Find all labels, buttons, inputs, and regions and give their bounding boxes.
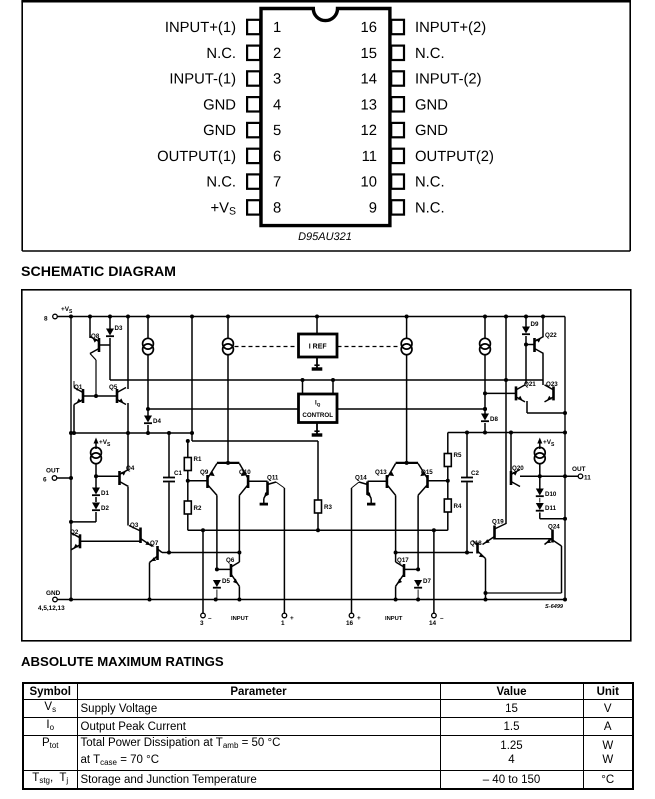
junction: [226, 461, 230, 465]
svg-text:S-6499: S-6499: [545, 604, 564, 610]
pin 15 lead: [391, 46, 404, 60]
wire I2 to Q9/Q10 collector bar: [227, 355, 229, 463]
wire: [433, 530, 435, 613]
junction: [186, 479, 190, 483]
junction: [483, 407, 487, 411]
resistor R4: [444, 499, 462, 512]
wire Q10 base to Q11: [248, 480, 267, 482]
wire current source I4 feed: [484, 317, 486, 339]
junction: [69, 315, 73, 319]
diode D9: [522, 321, 539, 334]
junction: [69, 598, 73, 602]
capacitor C1: [163, 433, 182, 553]
svg-text:R1: R1: [194, 456, 202, 463]
svg-text:16: 16: [346, 620, 354, 627]
svg-text:R2: R2: [194, 505, 202, 512]
wire Iq control left feed: [302, 380, 304, 394]
transistor Q4: [120, 465, 135, 487]
wire bias line y409 left: [148, 408, 299, 410]
wire D11 down: [539, 513, 541, 519]
pin connection diagram frame: [21, 1, 631, 251]
wire D9 to Q21 collector: [525, 336, 527, 385]
wire Q13 emitter down to Q17 collector: [395, 495, 397, 562]
block I REF: [299, 334, 338, 357]
transistor Q3: [129, 522, 153, 547]
svg-text:Q24: Q24: [548, 524, 560, 531]
wire bus to Q20 base: [510, 433, 512, 472]
heading SCHEMATIC DIAGRAM: [21, 265, 176, 279]
wire: [95, 360, 97, 396]
current source I1: [143, 338, 154, 354]
wire Q2 base line: [80, 540, 141, 542]
junction: [405, 315, 409, 319]
junction: [94, 394, 98, 398]
junction: [201, 528, 205, 532]
wire Q21 emitter drop: [526, 401, 528, 413]
svg-text:Q18: Q18: [470, 540, 482, 547]
svg-text:+: +: [290, 615, 294, 622]
svg-text:OUT: OUT: [46, 468, 60, 475]
junction: [226, 315, 230, 319]
junction: [563, 431, 567, 435]
wire I6 to D10: [539, 464, 541, 489]
pin 16 lead: [391, 20, 404, 34]
capacitor C2: [461, 433, 479, 553]
wire bias line y409 right: [337, 408, 485, 410]
transistor Q21: [516, 381, 536, 402]
junction: [214, 598, 218, 602]
transistor Q18: [470, 540, 486, 559]
diode D4: [144, 416, 161, 426]
junction: [126, 315, 130, 319]
junction: [483, 407, 487, 411]
transistor Q5: [109, 384, 126, 405]
wire: [202, 530, 204, 613]
ground below Iq CONTROL: [312, 423, 323, 435]
wire Q24 return to gnd node: [486, 592, 562, 594]
svg-text:–: –: [208, 615, 212, 622]
pin 14 lead: [391, 71, 404, 85]
wire bus y433 left: [71, 432, 192, 434]
junction: [509, 431, 513, 435]
junction: [215, 567, 219, 571]
junction: [465, 551, 469, 555]
wire: [351, 488, 353, 613]
terminal pin 16 INPUT+ (2): [346, 488, 361, 627]
junction: [167, 431, 171, 435]
svg-text:Q3: Q3: [130, 522, 139, 529]
junction: [108, 315, 112, 319]
wire: [417, 590, 419, 600]
svg-text:OUT: OUT: [572, 466, 586, 473]
wire Q19 to Q24 base: [495, 538, 553, 540]
junction: [186, 439, 190, 443]
junction: [126, 431, 130, 435]
junction: [504, 378, 508, 382]
wire x506 rail to Q19 collector: [505, 317, 507, 525]
transistor Q15: [418, 464, 433, 496]
svg-text:11: 11: [584, 475, 591, 482]
junction: [504, 315, 508, 319]
junction: [416, 567, 420, 571]
wire: [57, 477, 71, 479]
wire GND bottom rail: [57, 599, 565, 601]
terminal GND pins 4,5,12,13: [38, 590, 65, 612]
wire Q15 emitter down to Q17 base: [417, 495, 419, 569]
wire x128 Q5 to Q4 emitter: [127, 403, 129, 470]
pin 3 lead: [247, 71, 260, 85]
pin 8 lead: [247, 200, 260, 214]
svg-text:Q21: Q21: [524, 381, 536, 388]
wire R2 bottom to bus: [187, 512, 189, 530]
transistor Q17: [396, 557, 410, 586]
wire Q8 emitter drop x90: [89, 317, 91, 339]
wire: [216, 574, 218, 580]
wire current source I3 feed: [406, 317, 408, 339]
junction: [563, 411, 567, 415]
svg-text:Q22: Q22: [545, 332, 557, 339]
wire D8 to bus y432: [484, 423, 486, 433]
wire: [539, 440, 541, 449]
transistor Q8: [90, 333, 100, 354]
junction: [394, 551, 398, 555]
transistor Q6: [226, 557, 239, 586]
transistor Q11: [264, 475, 279, 499]
wire to Q4 base: [96, 475, 120, 477]
junction: [465, 431, 469, 435]
wire divider to Q9 base: [188, 480, 208, 482]
wire D2 to output node: [71, 521, 96, 523]
wire Q24 collector down: [561, 546, 563, 593]
resistor R1: [184, 456, 202, 471]
wire feedback bus y530: [188, 529, 448, 531]
wire center drop to R3: [317, 441, 319, 500]
wire D1 to D2: [95, 497, 97, 502]
junction: [563, 517, 567, 521]
wire: [235, 346, 299, 348]
svg-text:Q6: Q6: [226, 557, 235, 564]
diode D8: [481, 414, 498, 424]
ground below I REF: [312, 357, 323, 369]
svg-text:Q10: Q10: [239, 469, 251, 476]
svg-text:8: 8: [44, 316, 48, 323]
svg-text:D3: D3: [115, 325, 123, 332]
transistor Q10: [239, 464, 251, 496]
junction: [69, 520, 73, 524]
transistor Q23: [545, 381, 559, 402]
absolute maximum ratings table: [22, 682, 634, 790]
junction: [394, 598, 398, 602]
junction: [483, 315, 487, 319]
junction: [72, 431, 76, 435]
wire I3 to Q13/Q15 collector bar: [406, 355, 408, 463]
wire D11 to output node: [540, 518, 565, 520]
heading ABSOLUTE MAXIMUM RATINGS: [21, 655, 224, 669]
wire: [95, 440, 97, 449]
wire Q1-Q5 base link: [83, 395, 117, 397]
wire: [338, 346, 401, 348]
transistor Q13: [375, 464, 396, 496]
junction: [301, 378, 305, 382]
wire Q7 emitter to gnd: [149, 563, 151, 600]
diode D10: [536, 489, 557, 499]
svg-text:Q2: Q2: [70, 529, 79, 536]
wire y441 to R1: [187, 441, 189, 458]
junction: [483, 431, 487, 435]
svg-text:C1: C1: [174, 470, 182, 477]
svg-text:Q23: Q23: [546, 381, 558, 388]
svg-text:I REF: I REF: [309, 344, 328, 351]
wire Q6 base link: [217, 568, 231, 570]
junction: [405, 461, 409, 465]
wire bus y441: [192, 440, 318, 442]
terminal pin 1 INPUT+ (1): [281, 488, 294, 627]
wire R1 to R2: [187, 471, 189, 502]
wire Q21 base line: [485, 392, 516, 394]
junction: [94, 474, 98, 478]
wire Q1 emitter drop: [73, 405, 75, 434]
wire divider to Q15 base: [428, 480, 448, 482]
junction: [538, 474, 542, 478]
svg-text:D8: D8: [490, 416, 498, 423]
svg-text:Q14: Q14: [355, 475, 367, 482]
wire Q13 base to Q14: [368, 480, 387, 482]
transistor Q20: [511, 465, 524, 487]
svg-text:D2: D2: [101, 505, 109, 512]
junction: [167, 551, 171, 555]
supply arrow +Vs left bias: [94, 438, 112, 450]
junction: [484, 598, 488, 602]
junction: [190, 315, 194, 319]
svg-text:D9: D9: [531, 321, 539, 328]
svg-text:GND: GND: [46, 590, 61, 597]
wire Q22 base stub: [526, 344, 535, 346]
svg-text:R3: R3: [324, 504, 332, 511]
svg-text:C2: C2: [471, 470, 479, 477]
junction: [88, 315, 92, 319]
junction: [541, 315, 545, 319]
resistor R3: [315, 500, 333, 513]
wire Q9/Q10 collector bar: [217, 462, 240, 464]
svg-text:Q17: Q17: [397, 557, 409, 564]
wire current source I2 feed: [227, 317, 229, 339]
ground at Q11 emitter: [260, 499, 268, 505]
svg-text:R5: R5: [454, 452, 462, 459]
terminal pin 14 INPUT- (2): [429, 530, 444, 627]
wire Q18 collector bus y552: [396, 552, 473, 554]
wire Q17 emitter to gnd: [395, 586, 397, 599]
terminal pin 11 OUT(2): [572, 466, 591, 482]
wire Q6 emitter to gnd: [238, 586, 240, 599]
wire Q11 collector to input node: [276, 482, 284, 488]
svg-text:14: 14: [429, 620, 437, 627]
pin 6 lead: [247, 149, 260, 163]
wire Q4 collector to Q3: [127, 487, 129, 526]
wire R4 bottom to bus: [447, 512, 449, 530]
wire: [168, 433, 170, 477]
wire I5 to D1: [95, 464, 97, 488]
wire Q22 collector to Q23: [542, 354, 544, 386]
svg-text:3: 3: [200, 620, 204, 627]
svg-text:Q13: Q13: [375, 469, 387, 476]
junction: [237, 598, 241, 602]
wire bias line y380: [110, 379, 543, 381]
svg-text:1: 1: [281, 620, 285, 627]
svg-text:Q8: Q8: [91, 333, 100, 340]
wire I1 to D4: [147, 355, 149, 416]
svg-text:Q7: Q7: [150, 540, 159, 547]
current source I6: [534, 447, 545, 463]
wire: [447, 454, 449, 467]
diode D3: [106, 325, 123, 336]
wire: [417, 574, 419, 580]
wire bus y432 right: [448, 432, 565, 434]
pin 9 lead: [391, 200, 404, 214]
transistor Q2: [70, 529, 80, 550]
block Iq CONTROL: [299, 394, 338, 423]
junction: [237, 551, 241, 555]
wire: [466, 483, 468, 553]
pin 5 lead: [247, 123, 260, 137]
svg-text:INPUT: INPUT: [385, 616, 403, 622]
junction: [524, 315, 528, 319]
diode D11: [536, 503, 557, 512]
svg-text:CONTROL: CONTROL: [302, 412, 333, 419]
wire R5 to R4: [447, 467, 449, 500]
schematic frame: [22, 290, 631, 641]
wire Q8 collector riser: [90, 354, 96, 361]
wire D2 down: [95, 512, 97, 522]
terminal pin 6 OUT(1): [43, 468, 71, 484]
junction: [190, 431, 194, 435]
DIP-16 package body U1 with pin-1 notch: [261, 9, 390, 226]
transistor Q1: [74, 384, 83, 405]
junction: [331, 378, 335, 382]
wire Q10 emitter down to Q6 collector: [238, 495, 240, 562]
wire: [466, 433, 468, 478]
junction: [416, 598, 420, 602]
transistor Q24: [545, 524, 562, 547]
wire Q14 collector to input node: [352, 482, 360, 488]
diode D7: [414, 578, 431, 588]
svg-text:6: 6: [43, 477, 47, 484]
junction: [148, 598, 152, 602]
svg-text:Q20: Q20: [512, 465, 524, 472]
resistor R2: [184, 501, 202, 514]
junction: [69, 431, 73, 435]
junction: [146, 407, 150, 411]
wire Q8 base stub: [99, 344, 110, 346]
current source I2: [223, 338, 234, 354]
current source I3: [401, 338, 412, 354]
transistor Q9: [200, 464, 217, 496]
current source I5: [91, 447, 102, 463]
pin 10 lead: [391, 174, 404, 188]
svg-text:D7: D7: [423, 578, 431, 585]
svg-text:D1: D1: [101, 490, 109, 497]
pin 12 lead: [391, 123, 404, 137]
svg-text:INPUT: INPUT: [231, 616, 249, 622]
junction: [483, 391, 487, 395]
wire Q18 emitter to gnd: [485, 559, 487, 600]
svg-text:S: S: [107, 442, 111, 448]
junction: [563, 598, 567, 602]
svg-text:S: S: [69, 309, 73, 315]
pin 1 lead: [247, 20, 260, 34]
wire bus drop to R5: [447, 433, 449, 454]
wire x192 rail drop: [191, 317, 193, 442]
wire I REF feed: [316, 317, 318, 335]
svg-text:D4: D4: [153, 418, 161, 425]
svg-text:D11: D11: [545, 505, 557, 512]
wire I4 to D8: [484, 355, 486, 414]
wire emitter bus to x565: [527, 412, 565, 414]
wire: [168, 483, 170, 553]
wire Q7 collector bus y552: [162, 552, 239, 554]
wire: [283, 488, 285, 613]
wire: [539, 498, 541, 503]
svg-text:Q19: Q19: [492, 519, 504, 526]
terminal pin 3 INPUT- (1): [200, 530, 212, 627]
current source I4: [480, 338, 491, 354]
ground at Q14 emitter: [367, 499, 375, 505]
pin 13 lead: [391, 97, 404, 111]
svg-text:S: S: [551, 442, 555, 448]
transistor Q7: [150, 540, 163, 563]
svg-text:Q5: Q5: [109, 384, 118, 391]
wire Iq control right feed: [332, 380, 334, 394]
wire output(1) node x71: [70, 317, 72, 600]
wire output(2) line: [520, 475, 578, 477]
svg-text:Q11: Q11: [267, 475, 279, 482]
transistor Q14: [355, 475, 371, 499]
diode D5: [213, 578, 231, 588]
svg-text:D10: D10: [545, 491, 557, 498]
svg-text:Q15: Q15: [421, 469, 433, 476]
wire: [216, 590, 218, 600]
wire R3 to y530 bus: [317, 513, 319, 530]
junction: [315, 315, 319, 319]
wire x128 rail to Q5: [127, 317, 129, 390]
junction: [146, 315, 150, 319]
wire D9 feed: [525, 317, 527, 327]
wire Q22 emitter drop: [542, 317, 544, 338]
svg-text:–: –: [440, 615, 444, 622]
svg-text:4,5,12,13: 4,5,12,13: [38, 605, 65, 612]
junction: [316, 528, 320, 532]
diode D1: [92, 488, 109, 498]
svg-text:Q1: Q1: [74, 384, 83, 391]
svg-text:Q9: Q9: [200, 469, 209, 476]
wire Q9 emitter down to Q6 base: [216, 495, 218, 569]
pin 2 lead: [247, 46, 260, 60]
terminal pin 8 +Vs: [44, 306, 73, 323]
wire Q1 collector stub: [73, 381, 75, 388]
wire current source I1 feed: [147, 317, 149, 339]
wire +Vs top rail: [57, 316, 565, 318]
wire Q13/Q15 collector bar: [396, 462, 419, 464]
junction: [563, 474, 567, 478]
pin 4 lead: [247, 97, 260, 111]
pin 11 lead: [391, 149, 404, 163]
junction: [446, 479, 450, 483]
junction: [484, 591, 488, 595]
pin 7 lead: [247, 174, 260, 188]
transistor Q19: [483, 519, 507, 545]
junction: [524, 343, 528, 347]
transistor Q22: [535, 332, 558, 354]
wire D3 feed x110: [109, 317, 111, 329]
